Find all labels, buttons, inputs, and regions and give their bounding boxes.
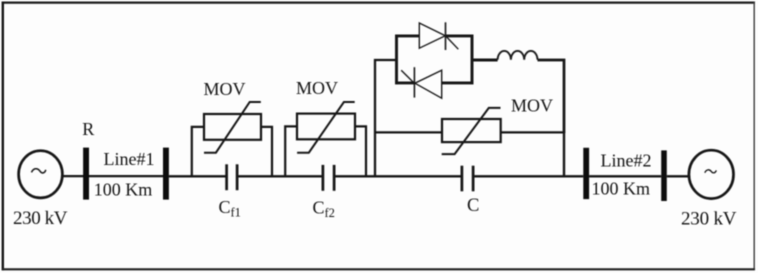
svg-text:100 Km: 100 Km bbox=[94, 180, 153, 200]
wire Cf1 branch left riser bbox=[192, 127, 204, 176]
MOV 2 varistor body bbox=[297, 114, 355, 140]
wire G1 to bus R bbox=[63, 175, 84, 177]
wire main line: C to bus 3 bbox=[474, 175, 583, 177]
capacitor C bbox=[462, 166, 473, 192]
MOV 3 varistor body bbox=[442, 119, 501, 142]
bus bar R bbox=[83, 148, 89, 200]
wire inductor to right riser bbox=[538, 60, 565, 133]
svg-text:230 kV: 230 kV bbox=[13, 208, 68, 229]
wire TCSC right riser lower bbox=[563, 132, 565, 176]
wire TCSC left riser bbox=[375, 60, 397, 176]
MOV 2 varistor diagonal bbox=[297, 102, 355, 153]
bus bar 2 bbox=[163, 148, 169, 200]
wire thyristor loop left edge bbox=[395, 35, 398, 85]
wire Cf2 branch left riser bbox=[285, 126, 297, 176]
svg-text:C: C bbox=[467, 196, 479, 216]
wire bus 4 to source G2 bbox=[667, 175, 690, 177]
MOV 1 varistor body bbox=[204, 114, 261, 140]
wire main line: Cf2 to C bbox=[335, 175, 461, 177]
wire thyristor loop bottom edge bbox=[395, 81, 473, 84]
wire thyristor loop top edge bbox=[395, 34, 473, 37]
svg-text:Line#1: Line#1 bbox=[104, 149, 155, 169]
svg-text:R: R bbox=[82, 119, 94, 139]
capacitor Cf2 bbox=[323, 165, 334, 191]
bus bar 3 bbox=[583, 148, 589, 199]
thyristor T2 (bottom, pointing left) bbox=[401, 67, 442, 98]
thyristor T1 (top, pointing right) bbox=[419, 22, 458, 50]
svg-text:MOV: MOV bbox=[204, 79, 246, 99]
wire MOV3 branch left bbox=[375, 131, 442, 133]
bus bar 4 bbox=[661, 150, 667, 201]
wire Line#1 bbox=[89, 175, 164, 177]
source G1 (left 230 kV) bbox=[19, 151, 63, 198]
MOV 3 varistor diagonal bbox=[442, 108, 501, 154]
wire loop to inductor bbox=[472, 59, 498, 62]
svg-text:Line#2: Line#2 bbox=[601, 150, 652, 170]
wire Cf2 branch right riser bbox=[355, 126, 366, 176]
inductor L bbox=[498, 51, 538, 60]
svg-text:100 Km: 100 Km bbox=[592, 179, 651, 199]
wire Cf1 branch right riser bbox=[261, 127, 272, 176]
capacitor Cf1 bbox=[227, 164, 238, 190]
wire thyristor loop right edge bbox=[471, 35, 474, 85]
wire main line: Cf1 to Cf2 bbox=[238, 175, 322, 177]
svg-text:MOV: MOV bbox=[296, 78, 338, 98]
wire MOV3 branch right bbox=[501, 131, 564, 133]
wire Line#2 bbox=[589, 175, 661, 177]
svg-text:MOV: MOV bbox=[511, 95, 553, 115]
MOV 1 varistor diagonal bbox=[204, 102, 261, 153]
wire main line: bus2 to Cf1 left plate bbox=[169, 175, 226, 177]
source G2 (right 230 kV) bbox=[689, 150, 734, 198]
svg-text:230 kV: 230 kV bbox=[681, 208, 737, 229]
